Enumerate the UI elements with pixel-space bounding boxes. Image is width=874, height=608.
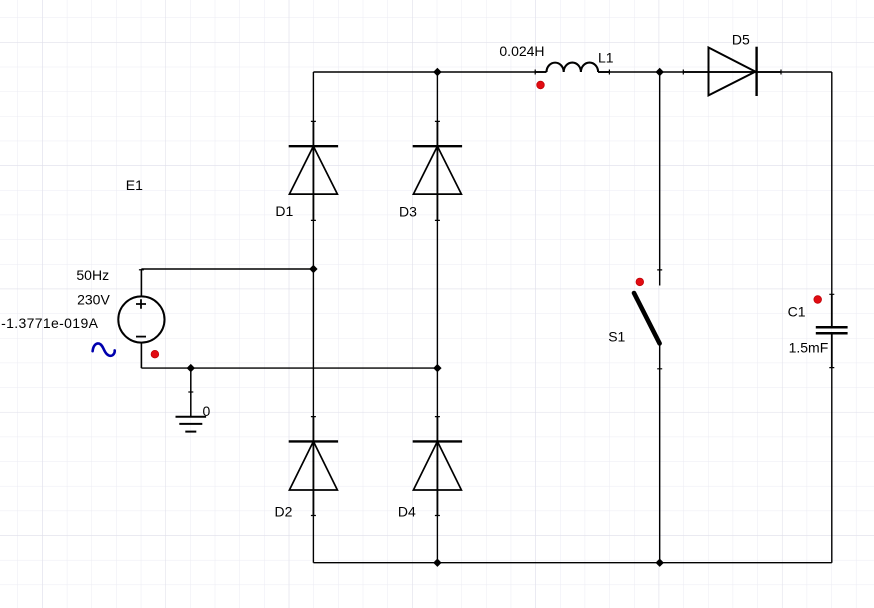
wire top rail right segment bbox=[598, 71, 832, 73]
label 230V bbox=[77, 292, 110, 308]
svg-text:D1: D1 bbox=[275, 203, 293, 219]
node junction top rail at switch column bbox=[656, 68, 664, 76]
capacitor C1 bbox=[816, 294, 848, 367]
label 0.024H bbox=[499, 43, 544, 59]
node junction at D3-D4 midpoint bbox=[433, 364, 441, 372]
probe dot near switch bbox=[636, 278, 644, 286]
svg-text:230V: 230V bbox=[77, 292, 110, 308]
label L1 bbox=[598, 50, 614, 66]
label 0 at ground bbox=[203, 403, 211, 419]
wire switch column lower bbox=[659, 344, 661, 563]
wire source bottom to bridge bbox=[141, 367, 437, 369]
diode D2 bbox=[289, 417, 338, 516]
node junction bottom rail at switch column bbox=[656, 559, 664, 567]
svg-text:D3: D3 bbox=[399, 204, 417, 220]
label D1 bbox=[275, 203, 293, 219]
svg-text:-1.3771e-019A: -1.3771e-019A bbox=[1, 315, 98, 331]
wire right edge lower bbox=[831, 334, 833, 562]
diode D3 bbox=[413, 121, 462, 220]
wire left bridge column bbox=[312, 72, 314, 563]
wire source top to bridge bbox=[141, 268, 313, 270]
switch S1 bbox=[634, 270, 662, 369]
svg-text:L1: L1 bbox=[598, 50, 614, 66]
svg-text:C1: C1 bbox=[788, 303, 806, 319]
source E1 bbox=[118, 296, 164, 342]
label 50Hz bbox=[76, 267, 109, 283]
diode D1 bbox=[289, 121, 338, 220]
wire source bottom pin bbox=[140, 343, 142, 369]
wire right bridge column bbox=[436, 72, 438, 563]
diode D4 bbox=[413, 417, 462, 516]
probe dot near capacitor bbox=[814, 296, 822, 304]
svg-text:S1: S1 bbox=[608, 329, 625, 345]
probe dot near inductor bbox=[537, 81, 545, 89]
svg-text:0.024H: 0.024H bbox=[499, 43, 544, 59]
node junction top rail at D3 column bbox=[433, 68, 441, 76]
node junction bottom rail at D4 column bbox=[433, 559, 441, 567]
label S1 bbox=[608, 329, 625, 345]
svg-text:D5: D5 bbox=[732, 32, 750, 48]
label C1 bbox=[788, 303, 806, 319]
diode D5 bbox=[683, 47, 781, 96]
svg-text:D4: D4 bbox=[398, 504, 416, 520]
svg-text:1.5mF: 1.5mF bbox=[789, 340, 829, 356]
label D3 bbox=[399, 204, 417, 220]
ground bbox=[176, 417, 207, 432]
inductor L1 bbox=[535, 63, 609, 75]
node junction at ground tap bbox=[187, 364, 195, 372]
wire right edge upper bbox=[831, 72, 833, 326]
svg-text:D2: D2 bbox=[275, 504, 293, 520]
sine symbol of source E1 bbox=[93, 343, 115, 355]
label 1.5mF bbox=[789, 340, 829, 356]
label -1.3771e-019A bbox=[1, 315, 98, 331]
label D2 bbox=[275, 504, 293, 520]
wire switch column upper bbox=[659, 72, 661, 286]
wire top rail left segment bbox=[313, 71, 546, 73]
label D4 bbox=[398, 504, 416, 520]
probe dot near source bbox=[151, 350, 159, 358]
svg-text:E1: E1 bbox=[126, 177, 143, 193]
label E1 bbox=[126, 177, 143, 193]
wire bottom rail bbox=[313, 562, 831, 564]
svg-text:50Hz: 50Hz bbox=[76, 267, 109, 283]
node junction at D1-D2 midpoint bbox=[309, 265, 317, 273]
wire ground drop bbox=[188, 368, 193, 417]
wire source top pin bbox=[139, 269, 144, 297]
svg-text:0: 0 bbox=[203, 403, 211, 419]
label D5 bbox=[732, 32, 750, 48]
